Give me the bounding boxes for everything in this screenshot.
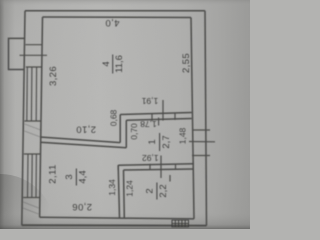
svg-text:2,06: 2,06 [72, 201, 92, 212]
dimension tick left y55.5 [20, 54, 48, 56]
svg-text:2: 2 [145, 188, 156, 193]
svg-text:0,68: 0,68 [109, 109, 119, 126]
stove / checkered block at bottom [172, 220, 189, 227]
svg-text:1: 1 [147, 139, 158, 144]
svg-text:2,55: 2,55 [181, 53, 192, 73]
svg-text:3,26: 3,26 [48, 66, 59, 86]
wall: building outer bottom [22, 224, 207, 226]
window W2 in left wall: top cap [24, 153, 41, 155]
right window bottom cap [192, 155, 210, 157]
svg-text:2,7: 2,7 [161, 135, 172, 148]
hatch in left wall segment y199-215 [23, 202, 39, 214]
right window mid tick [189, 141, 215, 143]
interior wall C bottom line [126, 119, 191, 121]
wall step vertical v1 [119, 115, 121, 143]
wall: building outer top [25, 10, 205, 12]
svg-text:3: 3 [64, 174, 75, 179]
room label 4 / 11,6 [101, 55, 125, 74]
window W1 in left wall: top cap [26, 66, 42, 68]
room label 3 / 4,4 [64, 169, 88, 186]
wall D left end cap [117, 165, 119, 170]
window W2 mullions [27, 154, 30, 198]
ticks on wall C [151, 114, 153, 121]
svg-text:2,11: 2,11 [48, 164, 59, 183]
wall: building inner top [43, 16, 192, 19]
window W1 bottom cap [25, 120, 42, 122]
svg-text:1,24: 1,24 [125, 180, 135, 197]
svg-text:4,0: 4,0 [105, 17, 119, 28]
interior wall D (room1 bottom / room2 top) top line [118, 164, 194, 165]
interior wall A bottom line [40, 142, 126, 148]
window W1 mullions [26, 67, 29, 121]
vent shaft protrusion on left [9, 38, 26, 69]
wall: building inner left [40, 17, 43, 217]
wall step vertical v2 [125, 120, 127, 148]
hatch in left wall segment y122-136 [24, 124, 40, 137]
svg-text:1,34: 1,34 [107, 179, 117, 196]
window W2 bottom cap [23, 197, 40, 199]
interior wall A (room4/room3) top line [40, 137, 120, 143]
tick above room1 label [158, 118, 160, 126]
svg-text:11,6: 11,6 [114, 55, 125, 73]
interior wall C (room1 top) top line [120, 113, 191, 115]
window in right wall (room1): top cap [192, 129, 210, 131]
room label 2 / 2,2 [145, 183, 169, 200]
interior wall D bottom line [124, 169, 195, 170]
svg-text:1,48: 1,48 [178, 127, 188, 144]
svg-text:2,10: 2,10 [76, 124, 96, 135]
svg-text:1,91: 1,91 [141, 96, 158, 106]
room label 1 / 2,7 [147, 133, 172, 151]
svg-text:1,78: 1,78 [140, 119, 157, 129]
wall: building inner bottom [40, 217, 194, 219]
scanned paper background [0, 0, 250, 229]
svg-text:4: 4 [101, 61, 112, 66]
partition E (room2/room3) [118, 165, 119, 217]
svg-text:4,4: 4,4 [78, 170, 89, 183]
svg-text:1,92: 1,92 [142, 153, 159, 163]
svg-text:0,70: 0,70 [129, 123, 139, 140]
wall: building outer left [22, 11, 25, 226]
wall: building inner right [191, 18, 194, 219]
wall: building outer right [205, 11, 207, 226]
svg-text:2,2: 2,2 [158, 184, 169, 197]
ticks on wall D [149, 164, 151, 170]
vent shaft wall cap y45 [26, 44, 43, 46]
